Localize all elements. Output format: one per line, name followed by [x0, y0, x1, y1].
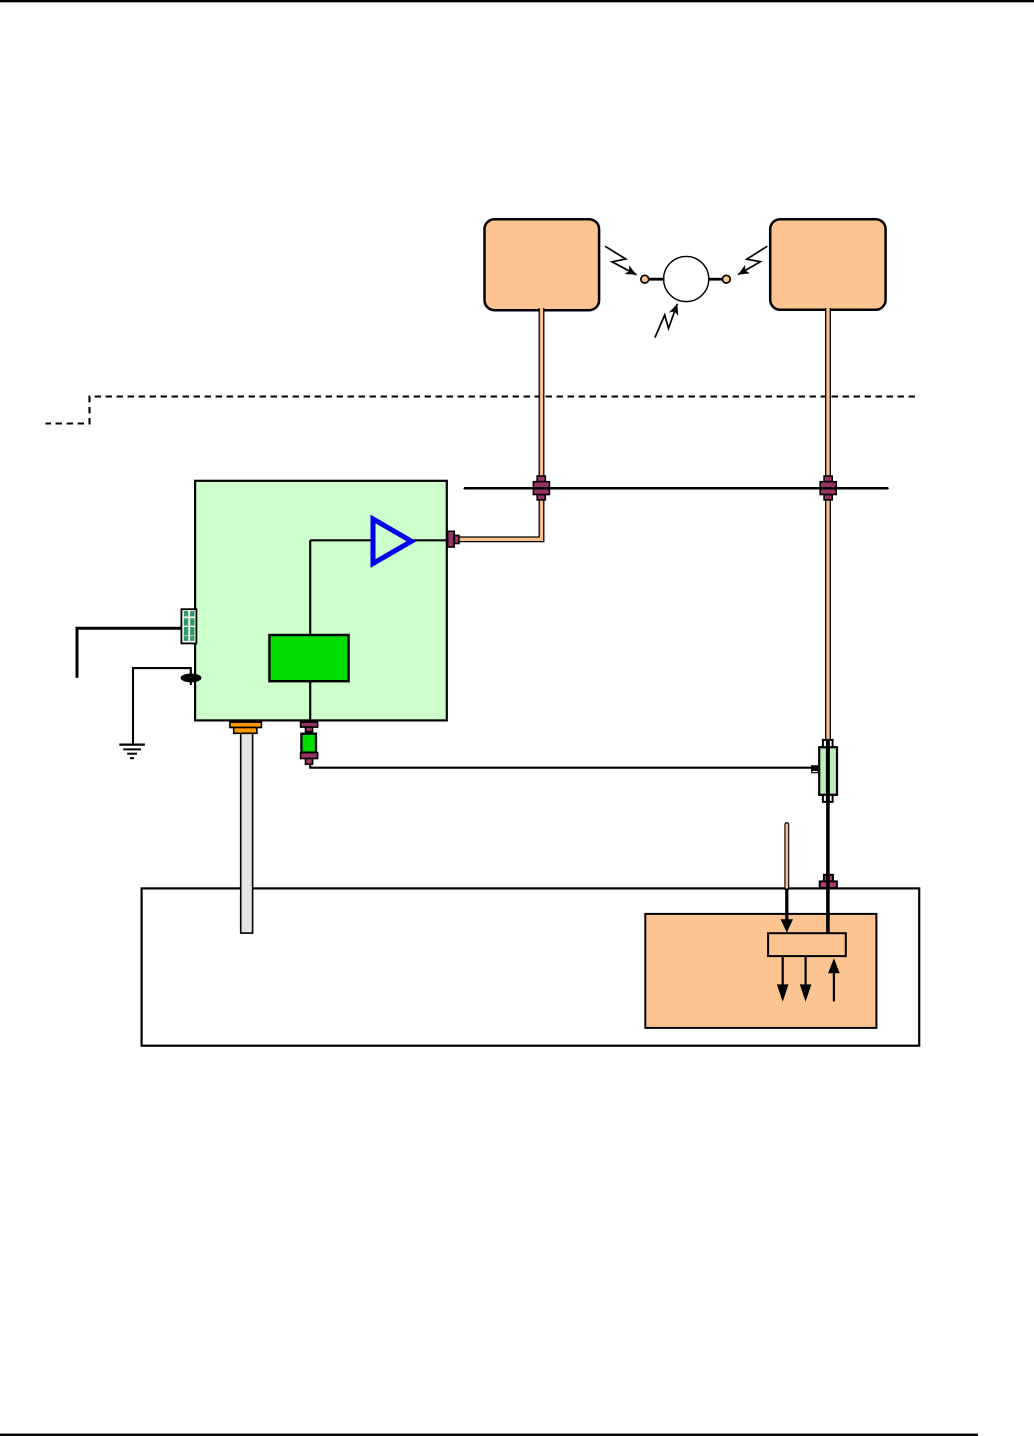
filter ground tab	[811, 765, 819, 770]
receiver unit box (light green)	[195, 481, 447, 721]
inline filter top plug	[823, 740, 833, 747]
amplifier symbol (blue triangle)	[373, 519, 412, 564]
right antenna box	[770, 219, 885, 310]
ground symbol	[119, 745, 145, 759]
grommet (black ellipse)	[181, 674, 202, 683]
lightning arrow left	[605, 246, 637, 275]
inline filter bottom plug	[823, 795, 833, 802]
wire from fuse to inline filter	[310, 764, 811, 768]
link right dot to circle	[708, 278, 724, 281]
lightning arrow right	[738, 246, 767, 274]
harness wire to vehicle (thick)	[77, 628, 181, 678]
amplifier input wire	[310, 539, 374, 541]
down arrow 2 below terminal	[804, 956, 806, 986]
bottom equipment compartment box	[142, 888, 920, 1045]
lightning arrow bottom	[655, 304, 677, 338]
main coax into bottom unit (thick black)	[826, 802, 830, 934]
ground line right tip	[886, 487, 890, 490]
down arrow 1 below terminal	[782, 956, 784, 986]
top page border bar	[0, 0, 1034, 2]
inline connector on left feeder	[533, 476, 549, 500]
output connector on receiver right edge (maroon)	[448, 531, 459, 547]
bottom unit box (orange)	[645, 914, 876, 1028]
stub arrow into terminal strip	[785, 888, 788, 921]
ground lead wire	[133, 668, 191, 744]
control module (bright green)	[269, 635, 348, 681]
terminal strip (orange)	[768, 933, 846, 956]
control line vertical	[309, 540, 311, 636]
bottom page border bar	[0, 1434, 978, 1436]
antenna element stub (orange, rounded top)	[784, 825, 789, 889]
ground line left tip	[463, 487, 467, 490]
noise source circle	[664, 256, 709, 301]
fuse body (bright green)	[301, 734, 316, 753]
module output line	[309, 681, 311, 723]
fuse bottom connector (maroon)	[301, 753, 318, 765]
antenna mast (gray)	[241, 733, 253, 933]
ground distribution line	[464, 487, 888, 490]
filter center conductor	[826, 740, 830, 803]
up arrow below terminal	[833, 971, 835, 1001]
multi-pin connector block on left edge	[181, 609, 196, 643]
inline connector on right feeder	[820, 476, 836, 500]
right antenna feeder wire (orange)	[825, 308, 831, 741]
left antenna box	[485, 219, 600, 310]
left antenna feeder wire (orange, L-shaped)	[459, 308, 542, 539]
right terminal dot	[722, 275, 730, 283]
amplifier output wire	[412, 539, 447, 541]
coax connector at compartment boundary (maroon)	[820, 875, 837, 888]
vehicle body dashed boundary line	[46, 397, 916, 424]
inline filter body (pale green)	[819, 747, 837, 795]
link left dot to circle	[647, 278, 665, 281]
fuse top connector (maroon)	[301, 722, 318, 732]
left terminal dot	[641, 275, 649, 283]
antenna mast socket (orange)	[230, 722, 262, 733]
